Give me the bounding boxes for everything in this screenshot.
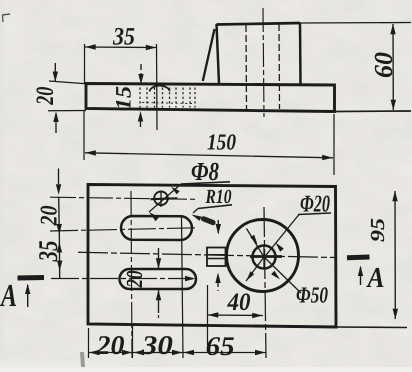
dimension 20 slot width bbox=[122, 248, 161, 321]
dimension 35 plan left bbox=[33, 230, 63, 278]
front view hidden dome of hole bbox=[150, 86, 170, 92]
hole 8 horizontal centerline row bbox=[50, 197, 196, 199]
svg-text:Ф8: Ф8 bbox=[191, 157, 219, 186]
front view hidden slot lines in plate bbox=[140, 88, 195, 108]
dimension 150 front width bbox=[84, 110, 334, 175]
svg-text:150: 150 bbox=[207, 130, 236, 155]
svg-text:A: A bbox=[366, 262, 385, 294]
boss circle vertical centerline bbox=[264, 207, 266, 358]
svg-text:40: 40 bbox=[227, 289, 251, 316]
svg-text:65: 65 bbox=[206, 331, 235, 361]
dimension 40 bbox=[208, 285, 264, 345]
plan view slot 1 oblong bbox=[121, 216, 192, 240]
svg-text:20: 20 bbox=[37, 206, 63, 227]
notch vertical dim arrows bbox=[215, 220, 221, 291]
leader diagonal to hole NE bbox=[265, 215, 300, 258]
hole circle diameter 20 bbox=[253, 246, 276, 269]
front view support rib bbox=[203, 29, 215, 81]
hole 8 center cross bbox=[151, 191, 178, 207]
dimension chain 20 30 65 bbox=[89, 326, 267, 361]
svg-text:20: 20 bbox=[32, 86, 59, 105]
slot 2 horizontal centerline with arrow bbox=[51, 276, 196, 281]
boss circle diameter 50 bbox=[227, 220, 299, 292]
dimension 15 front slot depth bbox=[111, 64, 144, 127]
slot 1 horizontal centerline bbox=[50, 228, 196, 231]
dimension 35 front bbox=[85, 24, 158, 131]
paper background bbox=[0, 0, 1, 1]
svg-text:60: 60 bbox=[369, 52, 398, 78]
front view boss cylinder outline bbox=[217, 23, 301, 85]
svg-text:15: 15 bbox=[111, 86, 136, 110]
section marker A right bbox=[347, 257, 385, 294]
svg-text:A: A bbox=[0, 277, 17, 313]
svg-text:20: 20 bbox=[122, 270, 147, 288]
radial arrow NW bbox=[247, 229, 265, 258]
label diameter 8 with leader bbox=[149, 157, 230, 221]
scan artifact bottom left smudge bbox=[82, 352, 83, 367]
section marker A left bbox=[0, 277, 44, 313]
label R10 with leader bbox=[192, 186, 233, 221]
front view boss vertical centerline bbox=[263, 8, 264, 117]
boss circle horizontal centerline bbox=[78, 252, 336, 257]
dimension 60 boss height bbox=[300, 23, 411, 112]
vertical line through slot right ends bbox=[182, 217, 184, 358]
plan view slot 2 oblong bbox=[120, 269, 197, 289]
dimension 20 plan left bbox=[37, 169, 63, 235]
vertical centerline through slot left arcs bbox=[131, 191, 132, 358]
svg-text:30: 30 bbox=[141, 330, 174, 360]
svg-text:35: 35 bbox=[33, 241, 63, 263]
front view hidden hole lines bbox=[246, 24, 280, 109]
dimension 20 front plate thickness bbox=[32, 63, 86, 133]
dimension 95 bbox=[336, 191, 407, 328]
hole center heavy bar bbox=[250, 255, 282, 258]
svg-text:95: 95 bbox=[367, 218, 389, 242]
svg-text:Ф50: Ф50 bbox=[296, 283, 328, 308]
hole center vertical dash bbox=[263, 245, 265, 270]
radial arrow SW bbox=[246, 257, 264, 281]
front view base plate outline bbox=[86, 84, 335, 112]
leader diagonal to Ф50 SE bbox=[264, 257, 301, 293]
scan artifact top left corner bbox=[2, 14, 10, 22]
hole diameter 8 circle bbox=[154, 192, 168, 206]
keyway notch rectangle bbox=[207, 248, 226, 267]
scan smudge blob near R10 bbox=[204, 219, 214, 223]
label diameter 20 bbox=[298, 192, 331, 218]
plan view plate outline bbox=[88, 185, 336, 328]
svg-text:20: 20 bbox=[95, 330, 125, 360]
svg-text:35: 35 bbox=[112, 24, 135, 51]
